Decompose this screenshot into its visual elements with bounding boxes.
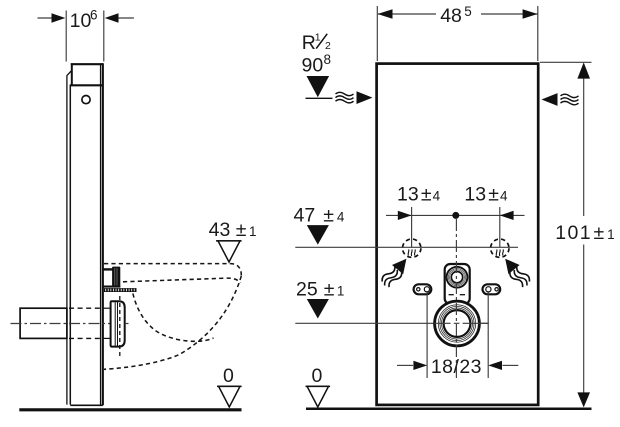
svg-text:0: 0 bbox=[223, 365, 234, 387]
svg-text:18/23: 18/23 bbox=[431, 356, 482, 378]
svg-text:R: R bbox=[302, 32, 316, 54]
svg-text:10: 10 bbox=[70, 10, 92, 32]
svg-text:48: 48 bbox=[440, 5, 462, 27]
svg-text:6: 6 bbox=[90, 8, 98, 23]
svg-text:5: 5 bbox=[464, 4, 472, 19]
svg-text:8: 8 bbox=[324, 52, 332, 67]
svg-text:1: 1 bbox=[315, 31, 321, 43]
svg-text:0: 0 bbox=[312, 365, 323, 387]
svg-text:2: 2 bbox=[325, 40, 331, 52]
svg-text:90: 90 bbox=[302, 55, 324, 77]
